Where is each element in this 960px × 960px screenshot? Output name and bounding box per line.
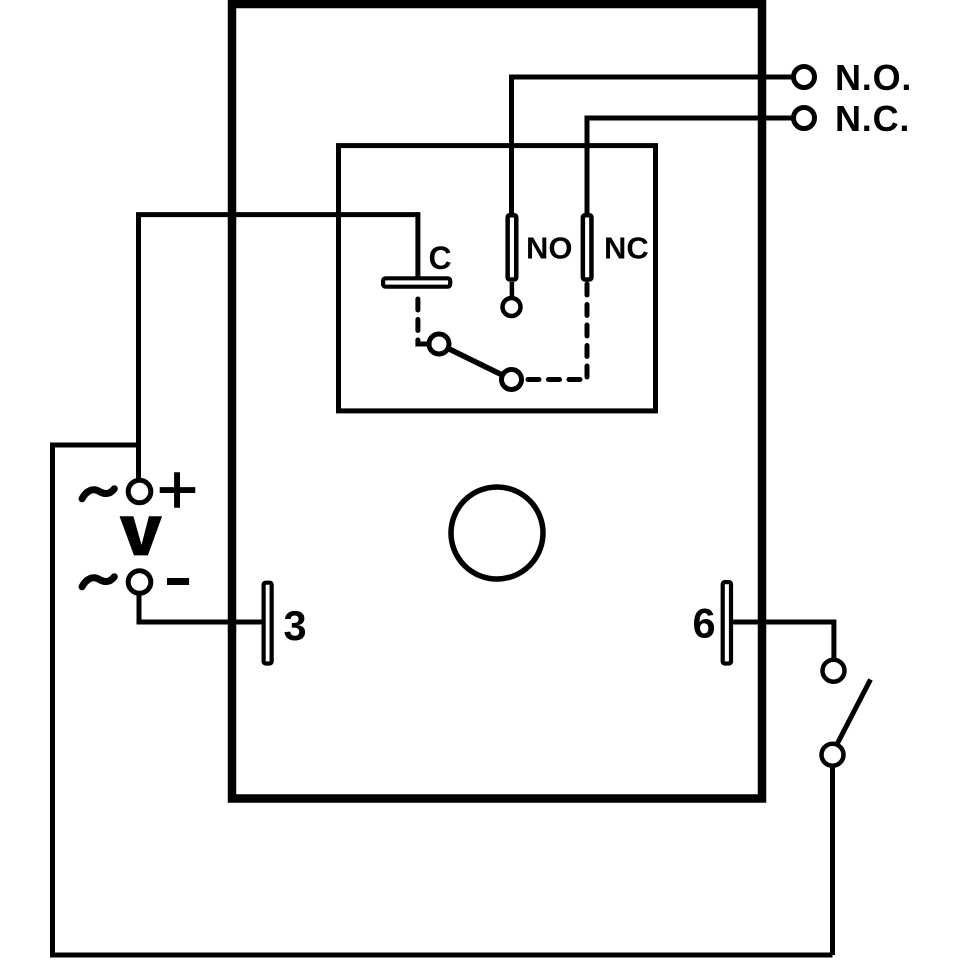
- NO contact bar: [508, 215, 517, 279]
- NO fixed contact point: [503, 298, 521, 316]
- wire switch to bottom loop: [830, 766, 835, 955]
- wire coil feed left: [139, 215, 418, 480]
- terminal N.C.: [794, 108, 815, 129]
- wire N.O. terminal to NO contact: [512, 77, 805, 214]
- svg-text:NC: NC: [604, 231, 649, 266]
- wire N.C. terminal to NC contact: [587, 118, 804, 214]
- tilde AC mark upper: [82, 489, 114, 499]
- relay coil circle: [451, 487, 543, 579]
- contact bar 3: [264, 583, 272, 664]
- wire stub to pivot: [415, 342, 430, 347]
- wire contact 6 to switch: [733, 622, 834, 660]
- plus sign: [160, 472, 196, 508]
- moving contact circle: [502, 370, 522, 390]
- minus sign: [167, 578, 189, 585]
- switch lower terminal: [822, 744, 844, 766]
- terminal plus circle: [128, 480, 151, 503]
- pivot contact circle: [429, 334, 449, 354]
- wire capacitor feed: [415, 212, 420, 277]
- terminal N.O.: [794, 67, 815, 88]
- terminal minus circle: [128, 571, 151, 594]
- svg-text:N.O.: N.O.: [835, 57, 912, 98]
- contact bar 6: [723, 582, 731, 663]
- svg-text:6: 6: [693, 600, 716, 647]
- switch upper terminal: [823, 660, 845, 682]
- NC contact bar: [583, 215, 592, 279]
- wire bottom return loop: [53, 445, 833, 955]
- svg-text:3: 3: [284, 602, 307, 649]
- dashed wire NC to moving contact: [524, 284, 587, 380]
- svg-text:NO: NO: [526, 231, 573, 266]
- NO contact lead lower: [510, 282, 515, 299]
- svg-text:N.C.: N.C.: [835, 98, 910, 139]
- switch blade: [834, 680, 871, 751]
- V source letter: [120, 516, 163, 555]
- armature blade: [439, 344, 512, 380]
- capacitor C plate: [383, 278, 450, 286]
- tilde AC mark lower: [82, 577, 114, 587]
- outer enclosure box: [232, 4, 762, 799]
- svg-text:C: C: [429, 240, 452, 276]
- inner relay box: [339, 146, 656, 411]
- dashed wire capacitor to pivot: [415, 299, 420, 341]
- wire minus to contact 3: [139, 594, 262, 623]
